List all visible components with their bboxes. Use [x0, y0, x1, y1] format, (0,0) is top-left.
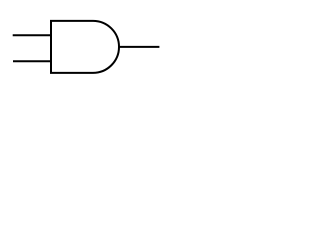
AND gate	[51, 21, 119, 73]
wire: output	[119, 46, 159, 48]
wire: bottom input	[13, 60, 51, 62]
wire: top input	[13, 34, 51, 36]
